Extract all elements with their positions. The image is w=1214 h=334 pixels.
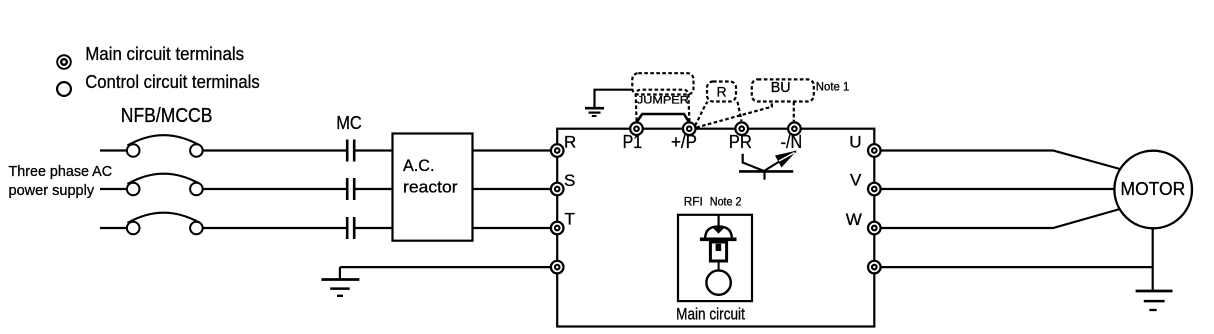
terminal W: [868, 222, 881, 235]
svg-text:R: R: [564, 133, 576, 152]
wire phase2 to contactor: [203, 188, 346, 190]
breaker NFB pole 1: [127, 135, 203, 157]
svg-text:RFI: RFI: [684, 194, 703, 208]
label Three phase AC power supply: [9, 163, 113, 199]
ground symbol top (near jumper): [585, 90, 632, 116]
contactor MC pole 1: [347, 140, 354, 162]
svg-text:+/P: +/P: [671, 132, 697, 152]
wire phase1 to reactor: [356, 149, 393, 151]
terminal U: [868, 144, 881, 157]
svg-text:P1: P1: [623, 132, 643, 152]
wire reactor to S terminal: [473, 188, 558, 190]
svg-text:JUMPER: JUMPER: [637, 94, 689, 106]
terminal P1: [630, 122, 643, 135]
dashed lead +/P to BU box: [696, 102, 772, 128]
svg-text:PR: PR: [729, 132, 752, 152]
terminal S: [551, 183, 564, 196]
wire W output: [874, 209, 1120, 228]
wire phase3 to reactor: [356, 227, 393, 229]
terminal PR: [735, 122, 748, 135]
svg-text:R: R: [716, 84, 726, 100]
svg-text:MC: MC: [336, 112, 362, 133]
terminal R: [551, 144, 564, 157]
wire phase1 input stub: [100, 149, 127, 151]
motor M1: [1114, 151, 1192, 229]
RFI screw symbol: [700, 215, 737, 295]
brake transistor symbol: [739, 151, 797, 180]
A.C. reactor box: [393, 134, 473, 241]
svg-text:S: S: [564, 171, 575, 190]
legend main-terminal symbol: [57, 55, 71, 69]
breaker NFB pole 3: [127, 213, 203, 235]
svg-text:V: V: [850, 171, 862, 190]
dashed lead BU box to -/N: [793, 102, 795, 122]
svg-text:Main circuit terminals: Main circuit terminals: [85, 43, 244, 64]
wire phase1 to contactor: [203, 149, 346, 151]
ground symbol right: [1136, 291, 1173, 310]
wire motor to ground: [1152, 229, 1154, 291]
svg-text:power supply: power supply: [9, 182, 95, 199]
svg-text:A.C.: A.C.: [403, 156, 435, 175]
svg-text:W: W: [846, 210, 862, 229]
wire phase3 input stub: [100, 227, 127, 229]
svg-text:Three phase AC: Three phase AC: [9, 163, 113, 180]
terminal +/P: [683, 122, 696, 135]
brake unit option box BU: [752, 79, 814, 101]
dashed jumper arch with leads to P1 and +/P: [636, 90, 690, 121]
terminal ground left: [551, 261, 564, 274]
wire phase3 to contactor: [203, 227, 346, 229]
svg-text:NFB/MCCB: NFB/MCCB: [121, 104, 213, 127]
legend control-terminal symbol: [57, 82, 71, 96]
terminal -/N: [788, 122, 801, 135]
wire ground output: [874, 266, 1152, 268]
svg-text:reactor: reactor: [403, 178, 458, 197]
svg-text:MOTOR: MOTOR: [1121, 179, 1186, 199]
contactor MC pole 2: [347, 178, 354, 200]
dashed option box (outer, DC reactor option): [632, 73, 693, 94]
svg-text:-/N: -/N: [781, 132, 803, 152]
wire reactor to R terminal: [473, 149, 558, 151]
terminal ground right: [868, 261, 881, 274]
contactor MC pole 3: [347, 217, 354, 239]
inverter main box: [557, 129, 874, 327]
wire phase2 to reactor: [356, 188, 393, 190]
dashed lead R box to PR: [738, 102, 742, 121]
svg-text:T: T: [565, 210, 575, 229]
terminal T: [551, 222, 564, 235]
ground symbol left: [321, 267, 359, 296]
breaker NFB pole 2: [127, 174, 203, 196]
RFI filter box: [678, 215, 752, 301]
dashed lead +/P to R box: [695, 102, 708, 126]
ground earth wire to inverter: [340, 266, 557, 268]
terminal V: [868, 183, 881, 196]
svg-text:BU: BU: [771, 80, 791, 96]
wire reactor to T terminal: [473, 227, 558, 229]
svg-text:Control circuit terminals: Control circuit terminals: [85, 71, 260, 92]
wire U output: [874, 151, 1120, 170]
jumper bar P1 to +/P: [637, 114, 690, 122]
svg-text:U: U: [849, 133, 861, 152]
svg-text:Note 2: Note 2: [710, 194, 742, 208]
svg-text:Main circuit: Main circuit: [676, 304, 745, 323]
brake resistor option box R: [707, 82, 736, 102]
wire V output: [874, 188, 1118, 190]
svg-text:Note 1: Note 1: [816, 80, 850, 94]
wire phase2 input stub: [100, 188, 127, 190]
